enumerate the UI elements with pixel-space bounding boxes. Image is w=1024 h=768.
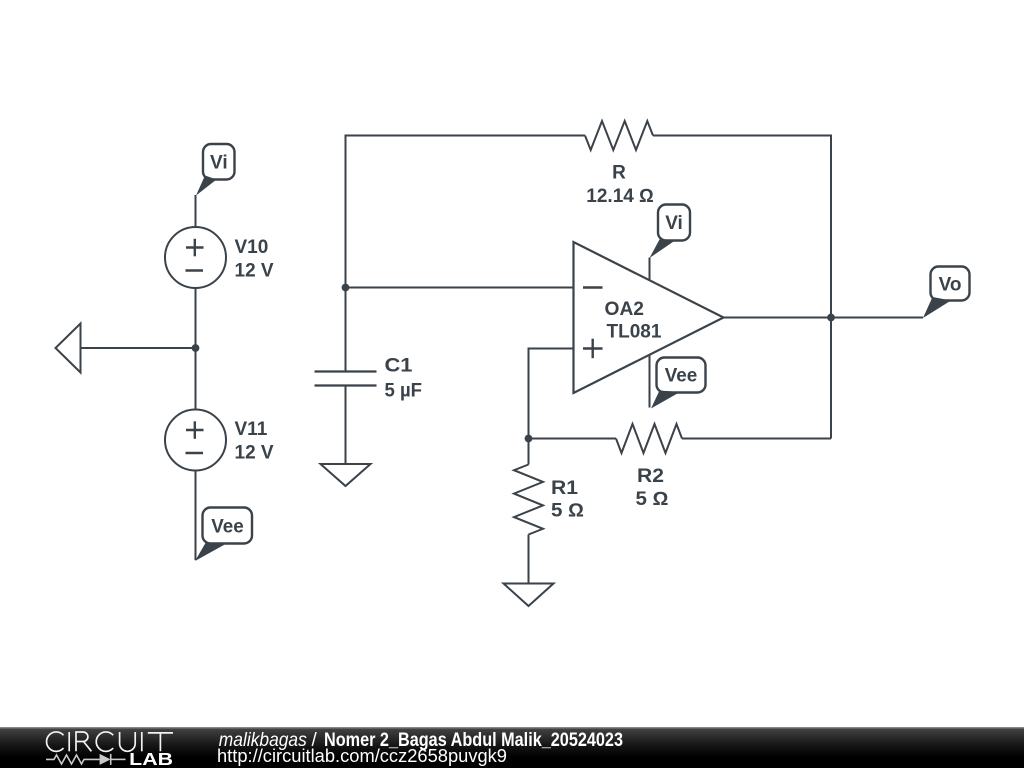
svg-text:V10: V10 [235, 237, 269, 258]
wire junction to op-amp inverting input [346, 287, 574, 289]
wire junction to R1 [528, 439, 530, 465]
wire junction to left arrow [81, 347, 196, 349]
svg-text:Vi: Vi [665, 213, 683, 234]
footer bar [0, 727, 1024, 768]
svg-text:Vee: Vee [211, 517, 244, 538]
capacitor C1 [315, 356, 423, 402]
svg-text:R: R [612, 163, 626, 184]
svg-text:TL081: TL081 [607, 322, 662, 343]
node junction R1/R2 [525, 435, 533, 443]
wire capacitor to ground [345, 386, 347, 464]
wire Vi flag to V10 top [195, 195, 197, 227]
wire R1 to ground [528, 535, 530, 584]
resistor R [585, 121, 653, 150]
svg-text:Vi: Vi [210, 153, 228, 174]
flag Vi (net Vi on V10) [196, 144, 235, 196]
flag Vi (op-amp V+ supply) [650, 205, 691, 259]
wire op-amp output to Vo [724, 317, 924, 319]
resistor R1 [514, 465, 543, 535]
svg-text:Vo: Vo [939, 275, 962, 296]
svg-text:12 V: 12 V [235, 261, 274, 282]
ground (below R1) [504, 584, 554, 607]
wire R2 to right rail [682, 438, 831, 440]
node junction at output rail [827, 314, 835, 322]
flag Vee (op-amp V- supply) [651, 358, 706, 409]
node junction at ground tap [192, 344, 200, 352]
wire op-amp non-inverting input stub [529, 349, 574, 439]
wire junction down to capacitor C1 [345, 288, 347, 372]
wire op-amp V- pin [649, 356, 651, 408]
node junction at inverting input [342, 284, 350, 292]
wire op-amp V+ pin [649, 258, 651, 282]
op-amp OA2 TL081 [574, 242, 724, 393]
wire resistor R to right rail [653, 136, 831, 439]
svg-text:LAB: LAB [129, 749, 173, 768]
svg-text:V11: V11 [235, 419, 268, 440]
svg-text:5 Ω: 5 Ω [551, 501, 584, 522]
voltage source V10 [165, 227, 274, 288]
wire V11 bottom to Vee flag [195, 471, 197, 561]
wire junction to R2 [529, 438, 617, 440]
svg-text:12.14 Ω: 12.14 Ω [586, 186, 653, 207]
ground reference arrow (left pointing) [56, 324, 81, 373]
ground (below C1) [321, 464, 371, 486]
svg-text:http://circuitlab.com/ccz2658p: http://circuitlab.com/ccz2658puvgk9 [217, 746, 507, 766]
wire V10 bottom to V11 top [195, 288, 197, 410]
CircuitLab logo resistor-diode squiggle [46, 754, 126, 765]
svg-text:OA2: OA2 [605, 299, 645, 320]
flag Vo (output) [923, 267, 970, 319]
voltage source V11 [165, 410, 274, 471]
svg-text:5 µF: 5 µF [385, 381, 423, 402]
svg-text:C1: C1 [385, 356, 413, 377]
svg-text:Vee: Vee [665, 366, 698, 387]
svg-text:R2: R2 [637, 466, 664, 487]
svg-text:12 V: 12 V [235, 443, 274, 464]
wire feedback top loop [346, 136, 586, 288]
CircuitLab logo CIRCUIT letters [47, 732, 173, 751]
svg-text:5 Ω: 5 Ω [636, 489, 669, 510]
flag Vee (net Vee on V11) [195, 508, 252, 562]
resistor R2 [616, 424, 682, 453]
svg-text:R1: R1 [551, 478, 578, 499]
